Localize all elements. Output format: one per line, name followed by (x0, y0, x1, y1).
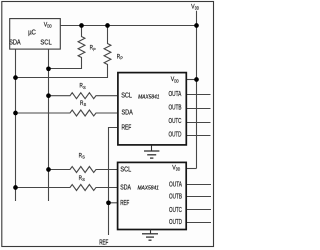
resistor RP1 (SCL pull-up) (49, 26, 85, 69)
wire: U2 SCL wire with resistor RS (49, 167, 118, 173)
junction dot rail-RP1 (79, 23, 84, 28)
svg-text:OUTB: OUTB (169, 194, 182, 201)
svg-text:µC: µC (28, 29, 36, 36)
wire: U1 VDD pin to rail (186, 79, 197, 81)
wire: VDD vertical drop from label (196, 11, 198, 169)
junction dot SCL-RP1 (46, 66, 51, 71)
svg-text:OUTC: OUTC (169, 118, 182, 125)
svg-text:S: S (82, 177, 85, 182)
svg-text:OUTB: OUTB (169, 104, 182, 111)
svg-text:REF: REF (122, 124, 132, 131)
wire: U1 OUTD (186, 135, 211, 137)
svg-text:S: S (84, 102, 87, 107)
svg-text:OUTA: OUTA (169, 91, 182, 98)
wire: U1 REF wire down to REF net (109, 128, 118, 236)
wire: SDA bus vertical (15, 49, 17, 201)
wire: U2 OUTD (186, 222, 211, 224)
svg-text:MAX5841: MAX5841 (138, 95, 159, 101)
junction dot rail-RP2 (105, 23, 110, 28)
wire: U2 OUTC (186, 209, 211, 211)
svg-text:SCL: SCL (120, 166, 131, 173)
junction dot rail-VDD vertical (194, 23, 199, 28)
wire: U1 SDA wire with resistor RS (16, 110, 118, 116)
svg-text:OUTD: OUTD (169, 132, 182, 139)
svg-text:SDA: SDA (120, 184, 131, 191)
svg-text:SCL: SCL (40, 40, 51, 47)
svg-text:DD: DD (195, 6, 200, 12)
wire: SCL bus vertical (48, 49, 50, 201)
wire: VDD rail from uC to right (60, 25, 196, 27)
DAC U1 MAX5841 box (118, 73, 186, 145)
junction dot SCL-U2 (46, 167, 51, 172)
wire: VDD elbow into U2 (186, 168, 197, 170)
svg-text:OUTC: OUTC (169, 207, 182, 214)
junction dot SCL-U1 (46, 93, 51, 98)
junction dot REF-U2 (106, 200, 111, 205)
resistor RP2 (SDA pull-up) (16, 26, 111, 78)
svg-text:OUTD: OUTD (169, 219, 182, 226)
junction dot SDA-RP2 (13, 75, 18, 80)
svg-text:DD: DD (176, 167, 181, 173)
DAC U2 MAX5841 box (118, 162, 187, 229)
svg-text:REF: REF (99, 239, 108, 246)
svg-text:SDA: SDA (122, 110, 134, 117)
wire: U2 OUTA (186, 184, 211, 186)
wire: U2 OUTB (186, 196, 211, 198)
junction dot SDA-U2 (13, 185, 18, 190)
svg-text:DD: DD (174, 78, 179, 84)
wire: U1 SCL wire with resistor RS (49, 93, 118, 99)
svg-text:SDA: SDA (9, 40, 21, 47)
junction dot U1 VDD (194, 77, 199, 82)
svg-text:OUTA: OUTA (169, 181, 182, 188)
ground symbol U1 (144, 146, 159, 159)
junction dot SDA-U1 (13, 111, 18, 116)
svg-text:S: S (83, 85, 86, 90)
ground symbol U2 (142, 230, 158, 241)
svg-text:MAX5841: MAX5841 (138, 185, 159, 191)
svg-text:DD: DD (47, 24, 52, 30)
svg-text:P: P (120, 56, 122, 61)
wire: U1 OUTC (186, 122, 211, 124)
wire: U2 SDA wire with resistor RS (16, 185, 118, 191)
wire: U2 REF stub (109, 202, 118, 204)
wire: U1 OUTA (186, 94, 211, 96)
svg-text:REF: REF (120, 200, 129, 207)
border frame (2, 2, 214, 247)
wire: U1 OUTB (186, 108, 211, 110)
microcontroller box U_uC (10, 19, 61, 49)
svg-text:SCL: SCL (121, 93, 132, 100)
svg-text:P: P (93, 47, 95, 52)
svg-text:S: S (82, 155, 85, 160)
